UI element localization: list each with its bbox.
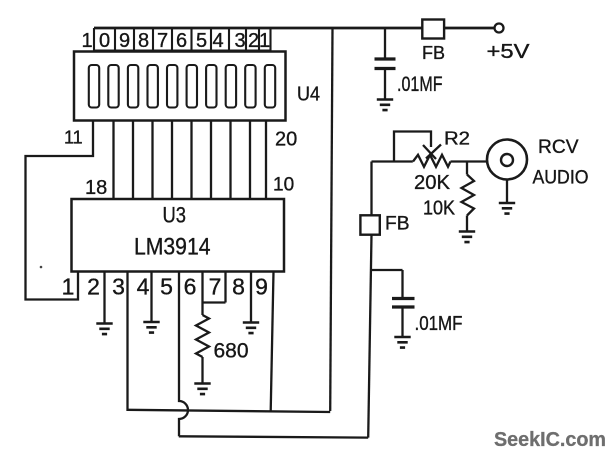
svg-text:6: 6 <box>176 30 187 52</box>
svg-text:10K: 10K <box>423 198 456 220</box>
svg-text:1: 1 <box>81 30 92 52</box>
svg-text:AUDIO: AUDIO <box>533 168 589 189</box>
svg-text:RCV: RCV <box>538 137 579 158</box>
svg-text:SeekIC.com: SeekIC.com <box>494 429 606 451</box>
svg-text:.01MF: .01MF <box>415 313 463 335</box>
svg-text:10: 10 <box>273 175 294 196</box>
svg-text:5: 5 <box>196 30 207 52</box>
svg-text:8: 8 <box>138 30 149 52</box>
svg-text:1: 1 <box>62 274 75 300</box>
svg-text:20: 20 <box>275 129 297 151</box>
svg-text:9: 9 <box>119 30 130 52</box>
svg-text:2: 2 <box>248 30 259 52</box>
svg-text:3: 3 <box>112 274 125 300</box>
svg-text:20K: 20K <box>414 172 451 194</box>
svg-text:FB: FB <box>385 214 410 235</box>
svg-text:18: 18 <box>85 177 107 199</box>
svg-text:U3: U3 <box>163 203 187 228</box>
svg-text:11: 11 <box>64 128 83 148</box>
svg-text:9: 9 <box>255 274 268 300</box>
svg-text:6: 6 <box>184 274 197 300</box>
svg-text:680: 680 <box>214 340 249 363</box>
svg-text:7: 7 <box>157 30 168 52</box>
svg-text:R2: R2 <box>444 129 470 149</box>
svg-text:2: 2 <box>87 274 100 300</box>
svg-text:U4: U4 <box>297 84 320 106</box>
svg-text:4: 4 <box>137 274 150 300</box>
svg-text:5: 5 <box>160 274 173 300</box>
svg-text:8: 8 <box>232 274 245 300</box>
svg-text:.01MF: .01MF <box>397 73 443 96</box>
svg-text:+5V: +5V <box>487 41 531 63</box>
svg-text:3: 3 <box>234 30 245 52</box>
svg-text:LM3914: LM3914 <box>134 234 211 261</box>
svg-text:4: 4 <box>212 30 223 52</box>
svg-text:0: 0 <box>99 30 110 52</box>
svg-text:FB: FB <box>422 42 445 63</box>
svg-text:7: 7 <box>209 274 222 300</box>
svg-text:1: 1 <box>259 30 270 52</box>
